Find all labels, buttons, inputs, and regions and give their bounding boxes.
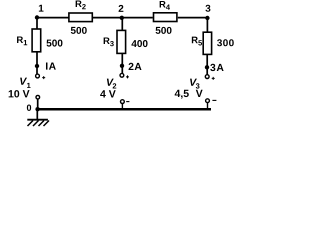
label R5 [192,37,202,46]
plus sign V2 [126,75,129,78]
value label 500 of R4 [156,27,172,34]
current label 2A [129,63,142,70]
minus sign V2 [126,101,129,103]
wire node1 down to R1 [36,18,38,30]
label R2 [76,0,86,9]
node 3 label [205,5,210,12]
ground hatch strokes [28,121,50,127]
wire node2 to R4 [122,17,153,19]
label R1 [17,36,27,45]
node 2 label [119,5,124,12]
node 1 junction dot [35,15,39,19]
resistor R2 [69,13,92,22]
label 4 V [100,90,116,97]
junction dot below R3 [120,64,124,68]
current label 3A [210,64,223,71]
current label IA [46,63,56,70]
terminal circle V3 plus [205,75,209,79]
terminal circle V3 minus [206,99,210,103]
terminal circle V2 minus [121,100,125,104]
label 4,5 V [175,90,203,99]
terminal circle V1 plus [36,74,40,78]
bottom wire [38,108,212,111]
wire R4 to node3 [178,17,208,19]
resistor R3 [117,30,126,53]
node 2 junction dot [120,16,124,20]
wire R1 to dot1 [36,52,38,74]
junction dot below R1 [35,64,39,68]
label R3 [104,37,114,46]
terminal circle node 0 [36,95,40,99]
label V2 [107,79,116,89]
wire R2 to node2 [93,17,122,19]
wire node0 down to ground [36,109,38,119]
label V1 [20,78,30,88]
value label 500 of R2 [71,27,87,34]
terminal circle V2 plus [120,73,124,77]
value label 500 of R1 [47,40,63,47]
wire terminal 0 to bottom wire [37,99,39,109]
wire R5 to dot3 [206,55,208,75]
label 10 V [9,90,30,97]
wire R3 to dot2 [121,54,123,74]
plus sign V3 [212,77,215,80]
ground bar [27,119,48,121]
plus sign V1 [42,76,45,79]
label V3 [190,79,199,89]
resistor R5 [203,32,211,54]
value label 300 of R5 [217,39,234,46]
node 1 label [39,5,44,12]
resistor R1 [32,29,41,52]
stub V2 minus to bottom wire [121,104,123,110]
wire node2 down to R3 [121,18,123,31]
label R4 [160,1,170,10]
node 3 junction dot [205,16,209,20]
label 0 [27,105,31,111]
wire node3 down to R5 [206,18,208,33]
junction dot node 0 [35,107,39,111]
junction dot below R5 [205,65,209,69]
minus sign V3 [212,99,216,101]
wire node1 to R2 [37,17,69,19]
resistor R4 [154,13,177,22]
stub V3 minus to bottom wire [207,103,209,109]
value label 400 of R3 [131,40,147,47]
